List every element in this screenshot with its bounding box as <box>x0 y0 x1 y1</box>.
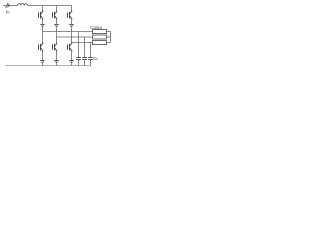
wire drop leg2 <box>56 6 58 12</box>
capacitor Cf2 <box>82 58 87 60</box>
svg-text:Carga: Carga <box>90 25 102 30</box>
wire D5 to bottom rail <box>56 64 58 66</box>
wire Q3 to D3 <box>71 19 73 24</box>
wire cap3 drop <box>90 43 92 58</box>
diode D3 (upper leg3) <box>69 25 73 28</box>
resistor R3 (load box 3) <box>93 41 107 45</box>
wire Q6 to D6 <box>71 51 73 60</box>
wire cap2 drop <box>84 37 86 57</box>
wire D6 to bottom rail <box>71 64 73 66</box>
wire input from source <box>3 5 18 7</box>
wire drop leg3 <box>71 6 73 12</box>
inductor L <box>18 3 28 5</box>
resistor R2 (load box 2) <box>93 35 107 39</box>
diode D4 (lower leg1) <box>40 61 44 64</box>
igbt Q1 (upper leg1) <box>39 11 44 20</box>
wire phase node 2 down to Q5 <box>56 37 58 43</box>
svg-text:Cf: Cf <box>93 56 97 61</box>
wire Q5 to D5 <box>56 51 58 60</box>
wire load star rail <box>110 32 112 43</box>
top rail wire <box>28 5 72 7</box>
wire D3 to phase node 3 <box>71 28 73 43</box>
slash of current source arrow <box>6 3 9 8</box>
wire cap1 drop <box>78 32 80 58</box>
igbt Q5 (lower leg2) <box>53 43 58 52</box>
wire drop leg1 <box>42 6 44 12</box>
wire Q2 to D2 <box>56 19 58 24</box>
wire phase b <box>57 36 93 38</box>
igbt Q6 (lower leg3) <box>68 43 73 52</box>
wire cap2 to bottom bus <box>84 60 86 66</box>
igbt Q2 (upper leg2) <box>53 11 58 20</box>
wire phase c <box>72 42 93 44</box>
igbt Q4 (lower leg1) <box>39 43 44 52</box>
wire phase a <box>43 31 93 33</box>
igbt Q3 (upper leg3) <box>68 11 73 20</box>
resistor R1 (load box 1) <box>93 30 107 34</box>
wire Q4 to D4 <box>42 51 44 60</box>
wire D1 to phase node 1 <box>42 28 44 32</box>
wire R2 right stub <box>107 36 111 38</box>
capacitor Cf1 <box>76 58 81 60</box>
wire Q1 to D1 <box>42 19 44 24</box>
wire D4 to bottom rail <box>42 64 44 66</box>
capacitor Cf3 <box>88 58 93 60</box>
wire phase node 3 down to Q6 <box>71 42 73 45</box>
diode D6 (lower leg3) <box>69 61 73 64</box>
diode D5 (lower leg2) <box>54 61 58 64</box>
current source arrow Iin <box>7 4 10 8</box>
wire cap1 to bottom bus <box>78 60 80 66</box>
diode D2 (upper leg2) <box>54 25 58 28</box>
wire D2 to phase node 2 <box>56 28 58 38</box>
bottom rail wire <box>5 65 91 67</box>
wire phase node 1 down to Q4 <box>42 32 44 44</box>
svg-text:Iin: Iin <box>6 9 10 15</box>
diode D1 (upper leg1) <box>40 25 44 28</box>
wire R3 right stub <box>107 42 111 44</box>
wire cap3 to bottom bus <box>90 60 92 66</box>
wire R1 right stub <box>107 31 111 33</box>
